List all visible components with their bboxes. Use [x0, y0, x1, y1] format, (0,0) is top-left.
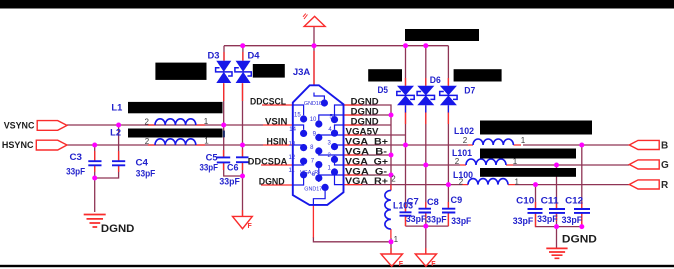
svg-text:VGA_R+: VGA_R+ — [345, 176, 388, 186]
svg-text:33pF: 33pF — [426, 215, 447, 225]
svg-text:D3: D3 — [208, 51, 220, 61]
svg-text:11: 11 — [289, 168, 296, 174]
svg-text:D7: D7 — [464, 85, 475, 95]
svg-text:VGA_B-: VGA_B- — [345, 147, 387, 157]
svg-text:2: 2 — [391, 174, 396, 183]
svg-text:33pF: 33pF — [451, 216, 471, 226]
svg-text:GND16: GND16 — [304, 101, 322, 107]
svg-text:L103: L103 — [393, 201, 413, 211]
svg-text:1: 1 — [204, 117, 209, 126]
svg-text:G: G — [661, 160, 669, 171]
svg-text:33pF: 33pF — [537, 214, 558, 224]
svg-text:C5: C5 — [206, 153, 218, 163]
svg-text:F: F — [399, 261, 404, 268]
svg-text:R: R — [661, 180, 669, 191]
svg-text:12: 12 — [289, 155, 296, 161]
svg-text:DDCSDA: DDCSDA — [248, 156, 288, 166]
svg-text:L102: L102 — [454, 126, 474, 136]
svg-text:F: F — [431, 261, 436, 268]
svg-text:33pF: 33pF — [136, 169, 156, 179]
svg-text:13: 13 — [289, 141, 296, 147]
svg-text:C10: C10 — [516, 196, 534, 206]
svg-text:VGA_B+: VGA_B+ — [345, 137, 388, 147]
svg-text:1: 1 — [521, 136, 526, 145]
svg-text:C6: C6 — [227, 162, 239, 172]
svg-text:GND17: GND17 — [304, 187, 322, 193]
svg-text:J3A: J3A — [293, 67, 311, 78]
svg-text:DGND: DGND — [259, 176, 285, 186]
svg-text:VGA_G+: VGA_G+ — [345, 157, 388, 167]
svg-text:C12: C12 — [565, 196, 583, 206]
svg-text:2: 2 — [455, 157, 460, 166]
svg-text:1: 1 — [204, 137, 209, 146]
svg-text:33pF: 33pF — [200, 162, 219, 172]
svg-text:33pF: 33pF — [406, 214, 427, 224]
svg-text:1: 1 — [515, 177, 520, 186]
svg-text:2: 2 — [145, 117, 150, 126]
svg-text:33pF: 33pF — [219, 177, 240, 187]
svg-text:B: B — [661, 140, 668, 151]
svg-text:2: 2 — [463, 136, 468, 145]
svg-text:DGND: DGND — [351, 117, 380, 127]
svg-text:VGA_R-: VGA_R- — [300, 170, 320, 176]
svg-text:L100: L100 — [453, 170, 473, 180]
svg-text:C4: C4 — [136, 157, 149, 167]
svg-text:L2: L2 — [110, 127, 121, 137]
svg-text:D4: D4 — [248, 51, 260, 61]
svg-text:1: 1 — [394, 235, 399, 244]
svg-text:14: 14 — [289, 127, 296, 133]
svg-text:L101: L101 — [452, 148, 472, 158]
svg-text:HSIN: HSIN — [267, 136, 288, 146]
svg-text:DDCSCL: DDCSCL — [250, 96, 286, 106]
svg-text:VSYNC: VSYNC — [4, 121, 35, 131]
svg-text:VGA5V: VGA5V — [346, 127, 379, 137]
svg-text:L1: L1 — [111, 103, 122, 113]
svg-text:D6: D6 — [430, 75, 441, 85]
svg-text:D5: D5 — [378, 85, 389, 95]
svg-text:33pF: 33pF — [66, 166, 85, 176]
svg-text:10: 10 — [310, 117, 317, 123]
svg-text:VGA_G-: VGA_G- — [345, 167, 387, 177]
svg-text:F: F — [248, 223, 253, 230]
svg-text:DGND: DGND — [562, 233, 597, 245]
svg-text:2: 2 — [145, 137, 150, 146]
svg-text:33pF: 33pF — [562, 215, 583, 225]
svg-text:VSIN: VSIN — [265, 116, 287, 126]
svg-text:C8: C8 — [427, 197, 439, 207]
svg-text:C9: C9 — [451, 195, 463, 205]
svg-text:DGND: DGND — [101, 223, 135, 235]
svg-text:15: 15 — [294, 113, 301, 119]
svg-text:33pF: 33pF — [513, 216, 534, 226]
svg-text:C11: C11 — [541, 196, 559, 206]
svg-text:DGND: DGND — [351, 107, 380, 117]
svg-text:C3: C3 — [70, 152, 83, 162]
svg-text:HSYNC: HSYNC — [2, 140, 34, 150]
svg-text:DGND: DGND — [351, 97, 380, 107]
